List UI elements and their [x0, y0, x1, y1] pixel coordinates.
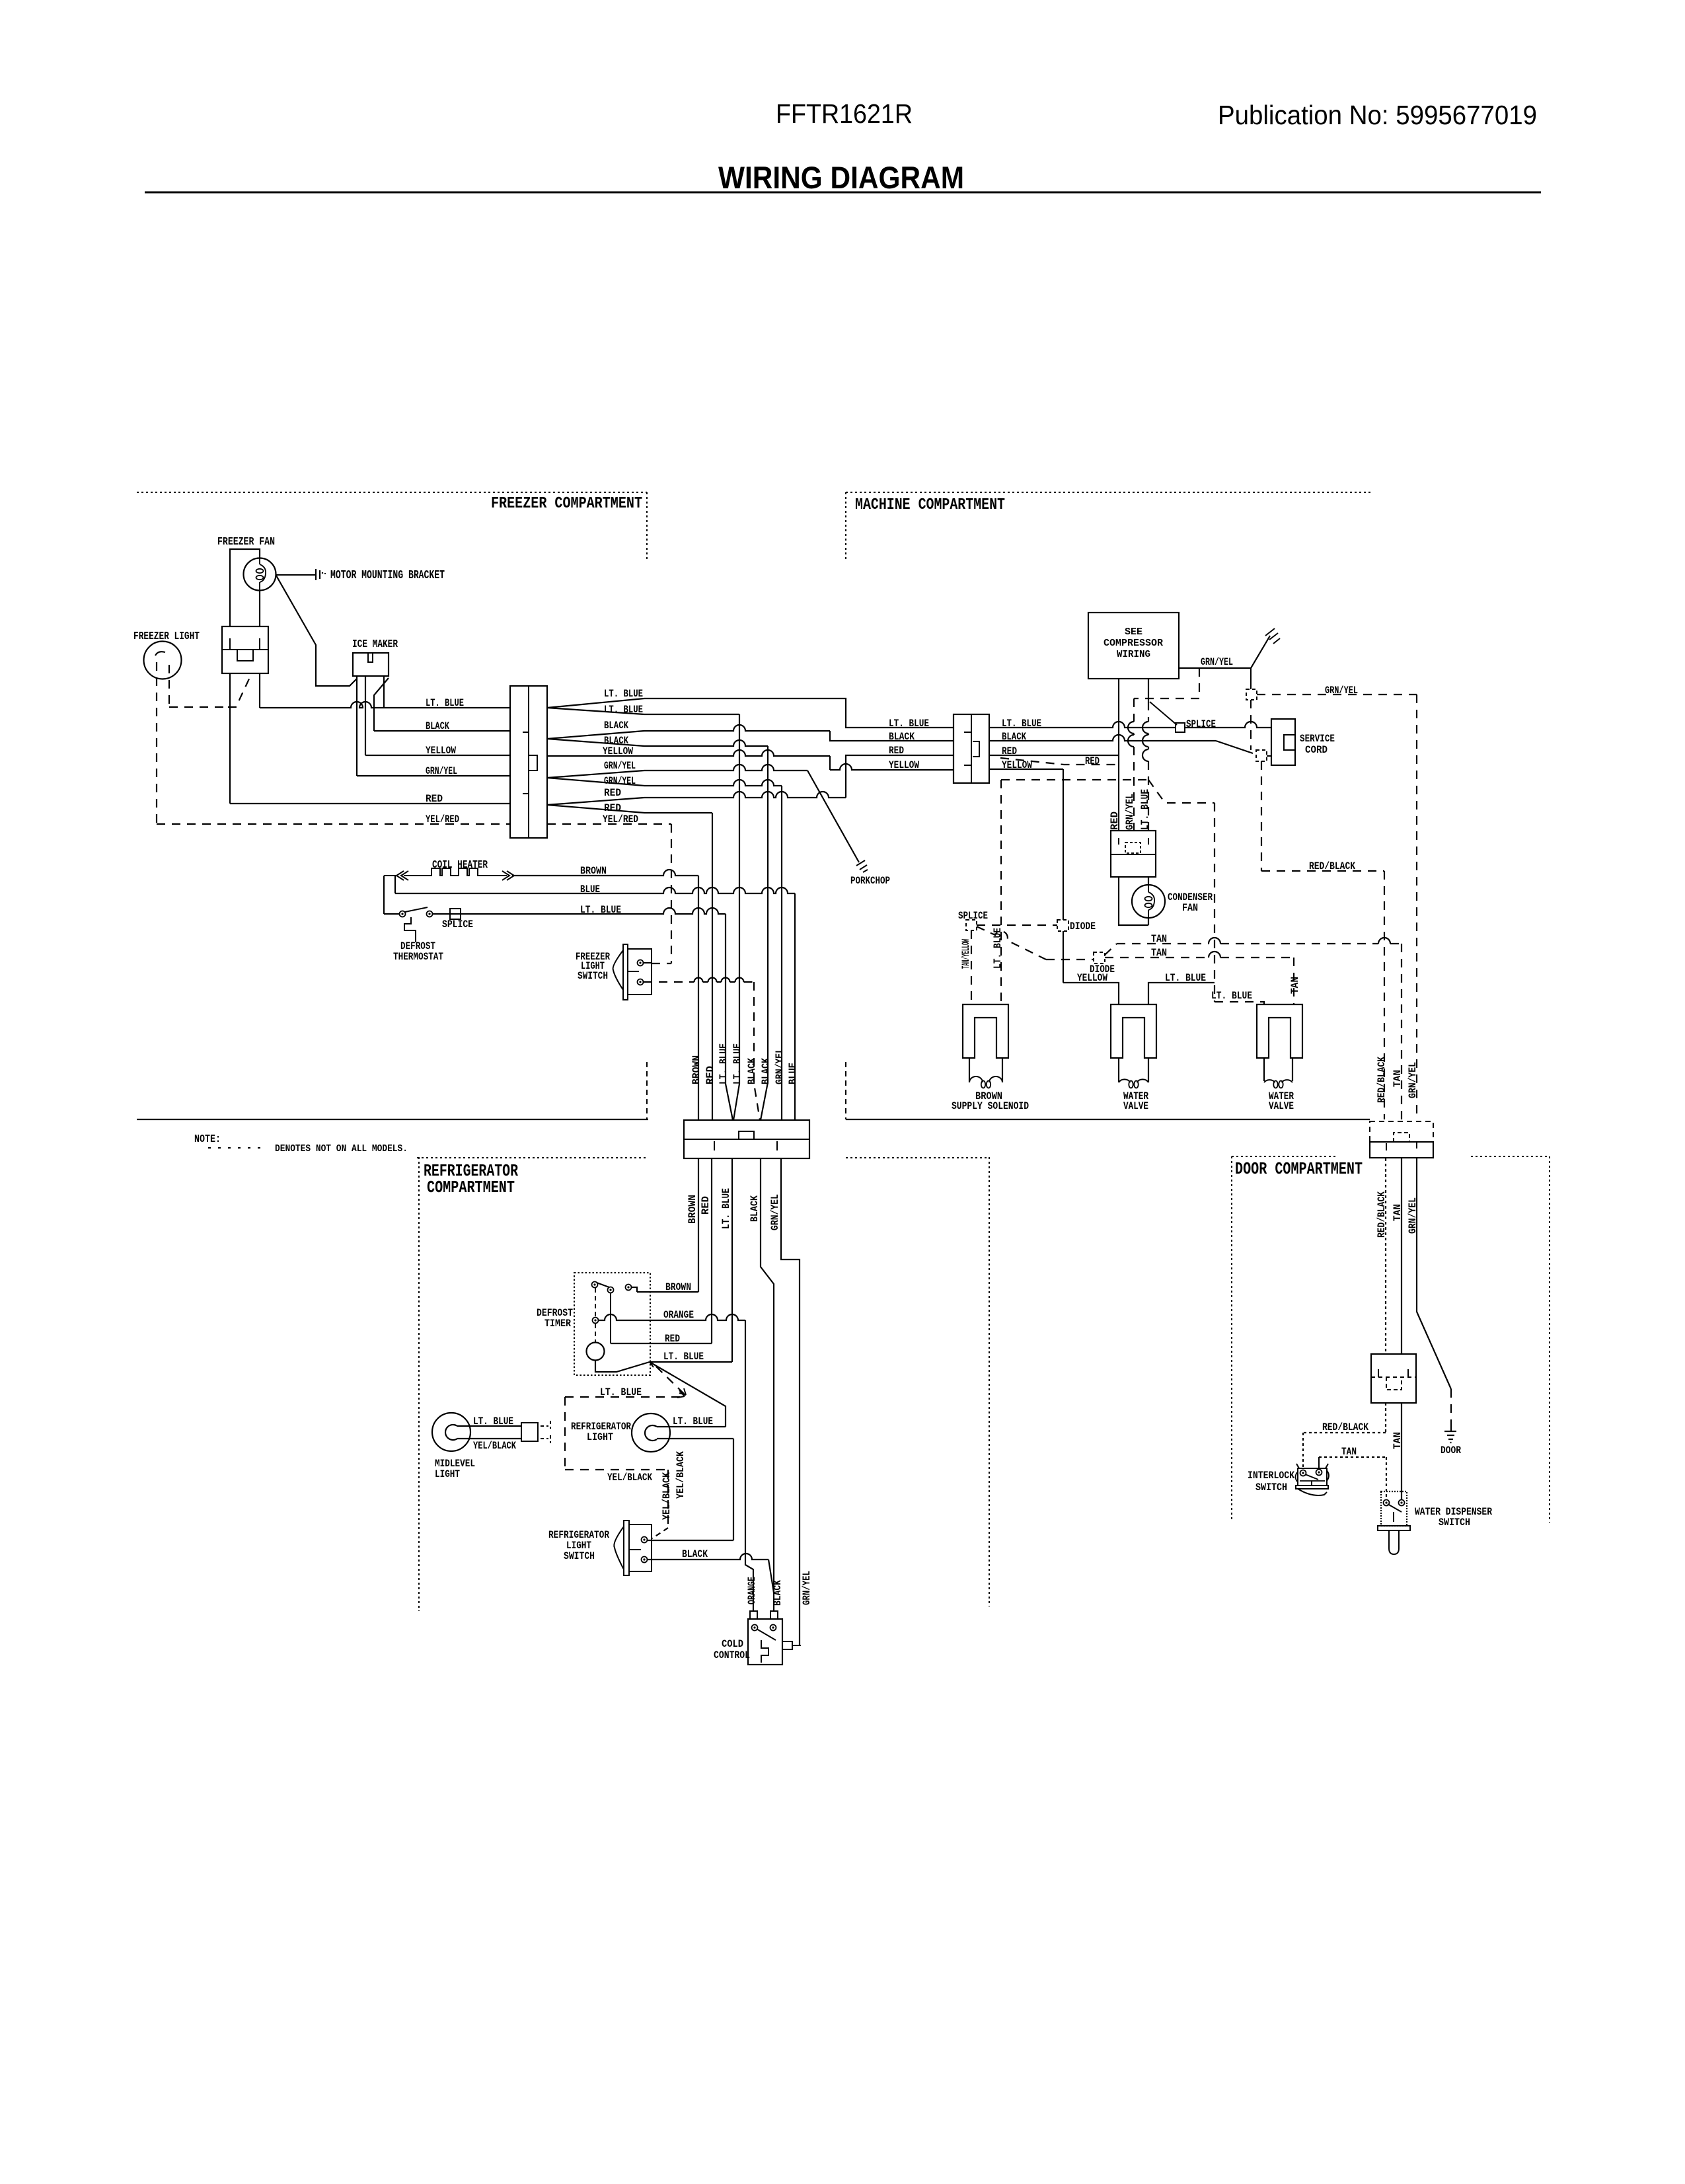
wire LT. BLUE valve1: [1148, 983, 1215, 1004]
wire LT. BLUE bundle b: [733, 714, 739, 1120]
defrost timer internal link: [595, 1288, 596, 1317]
porkchop ground symbol: [856, 860, 868, 872]
dashed box bottom side: [565, 1469, 668, 1470]
machine connector divider: [971, 714, 972, 783]
svg-text:RED: RED: [889, 745, 904, 757]
wire YELLOW freezer: [365, 755, 510, 756]
svg-text:ICE MAKER: ICE MAKER: [352, 638, 398, 651]
svg-text:GRN/YEL: GRN/YEL: [769, 1194, 781, 1230]
midlevel connector mate dashes: [541, 1421, 550, 1443]
machine connector ticks: [964, 732, 971, 765]
wire GRN/YEL splice vertical: [1250, 668, 1252, 689]
refrigerator compartment top border left: [417, 1157, 647, 1158]
wire LT. BLUE machine to splice: [989, 722, 1176, 728]
svg-text:TAN: TAN: [1392, 1070, 1404, 1087]
svg-text:BROWN: BROWN: [665, 1281, 691, 1293]
wire RED fan relay left leg: [229, 673, 231, 804]
wire LT. BLUE compressor dashed: [1148, 702, 1149, 831]
refrigerator light switch plate: [624, 1521, 629, 1575]
water dispenser switch plunger: [1389, 1530, 1399, 1554]
wire heater left end link: [383, 876, 385, 914]
cold control right screw: [770, 1625, 776, 1631]
wire BLACK dashed from switch lower: [644, 981, 754, 983]
wire freezer light right lead: [168, 665, 170, 707]
wire BLACK machine: [989, 735, 1216, 741]
defrost timer arm: [597, 1283, 609, 1287]
freezer light switch pointer: [613, 950, 623, 990]
svg-text:SERVICE: SERVICE: [1300, 733, 1335, 745]
svg-text:GRN/YEL: GRN/YEL: [1407, 1062, 1419, 1098]
wire TAN2 dashed left: [1046, 959, 1094, 960]
interlock switch right terminal: [1316, 1470, 1322, 1476]
svg-text:BLACK: BLACK: [749, 1195, 761, 1222]
svg-text:GRN/YEL: GRN/YEL: [1407, 1197, 1419, 1234]
defrost timer terminal 1: [592, 1282, 598, 1288]
svg-text:RED: RED: [426, 793, 443, 805]
freezer fan connector pin ticks: [230, 638, 260, 650]
cold control left screw: [752, 1625, 758, 1631]
refrigerator light circle: [632, 1413, 670, 1452]
refrigerator light switch pointer: [614, 1526, 624, 1569]
wire RED refrigerator: [711, 1158, 712, 1343]
interlock switch body: [1296, 1464, 1328, 1486]
svg-text:BLUE: BLUE: [787, 1063, 799, 1084]
wire LT. BLUE timer: [650, 1361, 732, 1363]
ice maker body: [353, 653, 389, 676]
wire TAN2 dashed right: [1105, 957, 1294, 958]
wire splice to diode1 dashed: [977, 924, 1057, 926]
interlock switch inner bar: [1300, 1481, 1325, 1486]
defrost thermostat arm: [405, 907, 428, 912]
wire BLACK pair fanout: [547, 731, 644, 746]
wire LT. BLUE dashed to valves: [1214, 803, 1215, 1002]
wire BLACK switch to cold control: [648, 1559, 650, 1560]
wire LT. BLUE freezer bus: [260, 702, 510, 708]
wire timer motor to lt blue: [595, 1360, 650, 1372]
wire splice pointer diagonal: [1150, 702, 1177, 725]
machine bottom border right part: [846, 1119, 1370, 1120]
wire LT. BLUE-1 to machine bus: [644, 698, 954, 728]
refrigerator light switch upper terminal: [642, 1537, 648, 1543]
interlock switch flange: [1296, 1486, 1328, 1489]
midlevel connector body: [521, 1423, 538, 1441]
wire lt blue diagonal to light: [650, 1362, 726, 1427]
door plug connector body: [1371, 1354, 1416, 1403]
wire BROWN timer: [631, 1287, 637, 1292]
wire terminal2 drop: [610, 1293, 611, 1343]
svg-text:GRN/YEL: GRN/YEL: [1124, 794, 1136, 830]
door compartment top border right: [1471, 1156, 1550, 1157]
wire BLACK into lower square: [1267, 755, 1271, 757]
wire GRN/YEL refrigerator: [781, 1158, 800, 1645]
svg-text:BLACK: BLACK: [889, 731, 915, 743]
service cord lower square dashed: [1256, 750, 1267, 761]
svg-text:COLD: COLD: [722, 1638, 743, 1650]
cold control orange terminal: [750, 1611, 757, 1619]
svg-text:BLACK: BLACK: [772, 1580, 784, 1606]
svg-text:LT. BLUE: LT. BLUE: [604, 704, 643, 716]
svg-text:DIODE: DIODE: [1090, 963, 1115, 975]
door plug connector notch: [1386, 1377, 1402, 1390]
machine connector notch: [973, 741, 979, 757]
refrigerator harness connector ticks: [714, 1141, 777, 1150]
condenser fan circle: [1132, 885, 1165, 918]
svg-text:FFTR1621R: FFTR1621R: [776, 98, 913, 129]
svg-text:PORKCHOP: PORKCHOP: [850, 875, 890, 887]
svg-text:RED/BLACK: RED/BLACK: [1309, 860, 1355, 872]
wire RED bundle: [712, 813, 713, 1120]
svg-text:SWITCH: SWITCH: [564, 1550, 595, 1562]
svg-text:SPLICE: SPLICE: [958, 910, 988, 922]
wire ice maker pin LT.BLUE leg: [383, 676, 385, 708]
wire YEL/RED freezer dashed: [157, 823, 510, 825]
svg-text:GRN/YEL: GRN/YEL: [604, 760, 636, 772]
wire GRN/YEL freezer: [357, 775, 510, 776]
svg-text:WIRING DIAGRAM: WIRING DIAGRAM: [718, 160, 964, 195]
dashed box left side: [564, 1397, 566, 1470]
svg-text:VALVE: VALVE: [1269, 1100, 1294, 1112]
svg-text:VALVE: VALVE: [1123, 1100, 1148, 1112]
interlock switch flap: [1298, 1489, 1327, 1495]
wire condenser fan left leg: [1119, 877, 1148, 925]
wire LT. BLUE dashed pointer horiz: [565, 1396, 681, 1398]
refrigerator compartment top border right: [846, 1157, 989, 1158]
svg-text:RED: RED: [704, 1066, 716, 1084]
wire YEL/RED dashed to switch: [547, 823, 671, 825]
defrost timer motor circle: [587, 1343, 605, 1361]
svg-text:TAN: TAN: [1151, 947, 1167, 959]
wire YEL/RED vertical: [671, 824, 672, 963]
splice square solenoid: [966, 920, 977, 930]
svg-text:LT. BLUE: LT. BLUE: [1165, 972, 1206, 984]
svg-text:LT. BLUE: LT. BLUE: [1211, 990, 1252, 1002]
svg-text:RED/BLACK: RED/BLACK: [1376, 1057, 1388, 1103]
svg-text:GRN/YEL: GRN/YEL: [426, 765, 457, 777]
freezer light switch body: [628, 949, 652, 995]
svg-text:FAN: FAN: [1182, 902, 1198, 914]
cold control black terminal: [770, 1611, 778, 1619]
svg-text:YEL/BLACK: YEL/BLACK: [661, 1472, 673, 1520]
wire RED/BLACK door vertical: [1385, 1158, 1386, 1354]
freezer compartment right border stub: [646, 492, 648, 560]
freezer fan frame: [230, 549, 260, 626]
wire BLACK-1 to machine bus: [644, 725, 830, 731]
wire YEL/BLACK dashed drop: [667, 1470, 669, 1528]
svg-text:TIMER: TIMER: [544, 1318, 571, 1330]
svg-text:RED: RED: [700, 1196, 712, 1215]
svg-text:DOOR: DOOR: [1441, 1445, 1461, 1456]
svg-text:BLACK: BLACK: [1002, 731, 1026, 743]
svg-text:RED: RED: [604, 787, 621, 799]
svg-text:LT. BLUE: LT. BLUE: [889, 718, 929, 730]
svg-text:LT. BLUE: LT. BLUE: [1002, 718, 1041, 730]
wire BLACK freezer: [374, 730, 510, 732]
svg-text:CORD: CORD: [1305, 744, 1328, 756]
water dispenser switch left terminal: [1384, 1500, 1390, 1506]
refrigerator harness connector notch: [739, 1131, 754, 1139]
defrost timer terminal 4: [593, 1318, 599, 1324]
water valve 1 body: [1111, 1004, 1156, 1058]
svg-text:RED: RED: [1085, 755, 1100, 767]
svg-text:TAN: TAN: [1289, 977, 1301, 994]
freezer light filament: [155, 652, 165, 656]
wire LT. BLUE midlevel: [457, 1425, 521, 1427]
wire RED machine: [989, 755, 1118, 756]
water dispenser switch right terminal: [1399, 1500, 1405, 1506]
freezer light switch plate: [623, 944, 628, 1000]
wire GRN/YEL bundle: [781, 786, 782, 1120]
midlevel light socket: [445, 1425, 457, 1440]
wire BLACK refrigerator: [761, 1158, 774, 1611]
svg-text:TAN: TAN: [1392, 1432, 1404, 1449]
svg-text:BLACK: BLACK: [426, 720, 449, 732]
svg-text:SPLICE: SPLICE: [442, 919, 473, 930]
freezer fan frame right lower: [259, 590, 260, 626]
wire LT. BLUE fan relay right leg: [259, 673, 260, 708]
svg-text:LT. BLUE: LT. BLUE: [604, 688, 643, 700]
wire BLACK bundle dashed: [754, 982, 760, 1120]
machine compartment left border stub: [845, 492, 846, 560]
service cord body: [1271, 719, 1295, 765]
wire LT. BLUE splice to service cord: [1185, 722, 1271, 728]
wire LT. BLUE valve2 dashed: [1215, 1002, 1264, 1005]
freezer light bulb circle: [144, 642, 182, 679]
water valve 2 legs: [1264, 1058, 1292, 1081]
svg-text:DOOR COMPARTMENT: DOOR COMPARTMENT: [1235, 1159, 1363, 1179]
wire TAN1 dashed: [1105, 944, 1117, 955]
svg-text:RED/BLACK: RED/BLACK: [1322, 1421, 1368, 1433]
water valve 2 coil: [1264, 1080, 1292, 1082]
svg-text:WIRING: WIRING: [1117, 649, 1150, 660]
svg-text:CONTROL: CONTROL: [714, 1649, 750, 1661]
interlock switch arm: [1305, 1474, 1318, 1480]
wire RED dashed alt: [1000, 758, 1119, 765]
wire YELLOW to machine bus: [547, 750, 830, 756]
svg-text:RED: RED: [604, 802, 621, 814]
wire TAN interlock to dispenser: [1318, 1457, 1320, 1470]
svg-text:BLACK: BLACK: [760, 1058, 772, 1084]
coil heater element and arrows: [384, 868, 514, 880]
svg-text:GRN/YEL: GRN/YEL: [1201, 656, 1233, 668]
wire LT. BLUE pair fanout: [547, 698, 644, 714]
freezer fan motor circle: [244, 558, 276, 591]
freezer compartment right border lower stub: [646, 1062, 648, 1119]
defrost timer box: [574, 1273, 650, 1375]
wire BLUE heater: [395, 887, 795, 893]
door compartment right border: [1549, 1156, 1550, 1523]
door plug connector ticks: [1378, 1369, 1408, 1377]
splice square machine: [1176, 723, 1185, 732]
svg-text:GRN/YEL: GRN/YEL: [801, 1571, 813, 1605]
defrost timer terminal 3: [626, 1285, 632, 1291]
svg-text:GRN/YEL: GRN/YEL: [774, 1048, 786, 1084]
wire LT. BLUE refrigerator light: [657, 1426, 726, 1427]
svg-text:RED: RED: [1109, 811, 1121, 830]
cold control capillary: [761, 1640, 768, 1663]
wire GRN/YEL-2 drop: [644, 780, 782, 786]
compressor wiring box: [1088, 613, 1179, 679]
svg-text:YELLOW: YELLOW: [889, 759, 919, 771]
svg-text:GRN/YEL: GRN/YEL: [604, 775, 636, 787]
porkchop diagonal wire: [807, 771, 859, 862]
water valve 1 legs: [1119, 1058, 1148, 1082]
wire LT. BLUE bundle a: [726, 914, 733, 1120]
svg-text:SPLICE: SPLICE: [1186, 718, 1216, 730]
svg-text:RED/BLACK: RED/BLACK: [1376, 1191, 1388, 1238]
wire ice maker pin GRN/YEL leg: [356, 676, 357, 776]
wire GRN/YEL compressor: [1179, 667, 1251, 669]
compressor relay box: [1111, 831, 1156, 877]
svg-text:LIGHT: LIGHT: [587, 1431, 613, 1443]
svg-text:LT. BLUE: LT. BLUE: [426, 697, 464, 709]
wire TAN/YELLOW dashed: [971, 930, 972, 1004]
svg-text:SWITCH: SWITCH: [1255, 1482, 1287, 1493]
defrost thermostat right terminal: [427, 911, 433, 917]
svg-text:LIGHT: LIGHT: [435, 1468, 460, 1480]
wire RED compressor: [1118, 679, 1119, 831]
svg-text:TAN/YELLOW: TAN/YELLOW: [960, 939, 972, 969]
svg-text:LT. BLUE: LT. BLUE: [1139, 789, 1151, 830]
wire BROWN bundle: [698, 876, 699, 1120]
wire BROWN refrigerator: [698, 1158, 699, 1292]
wire ORANGE timer: [598, 1314, 745, 1320]
door compartment top border left: [1232, 1156, 1336, 1157]
refrigerator harness connector body: [684, 1120, 809, 1158]
wire ice maker pin YELLOW leg: [365, 676, 366, 755]
interlock switch left terminal: [1300, 1470, 1306, 1476]
wire GRN/YEL dashed to door: [1257, 694, 1417, 695]
diode 1 square: [1057, 920, 1068, 931]
splice square on LT. BLUE: [450, 909, 461, 919]
svg-text:DIODE: DIODE: [1070, 921, 1096, 932]
wire LT. BLUE-2 drop: [644, 714, 739, 715]
wire GRN/YEL to cold control: [792, 1645, 801, 1646]
refrigerator light switch lower terminal: [642, 1557, 648, 1563]
freezer connector notch: [529, 755, 537, 771]
freezer/machine bottom border left part: [137, 1119, 648, 1120]
svg-text:NOTE:: NOTE:: [194, 1133, 221, 1146]
water dispenser switch arm: [1388, 1504, 1402, 1522]
svg-text:YEL/RED: YEL/RED: [426, 813, 459, 825]
refrigerator harness connector divider: [684, 1139, 809, 1140]
wire RED timer: [611, 1343, 712, 1344]
service cord inner plug: [1284, 735, 1295, 750]
wire condenser fan right legs: [1148, 877, 1149, 925]
wire YEL/RED to switch upper: [644, 962, 652, 963]
svg-text:GRN/YEL: GRN/YEL: [1325, 685, 1358, 697]
machine compartment top border: [846, 492, 1371, 493]
ground symbol compressor: [1265, 628, 1280, 644]
freezer fan motor coil: [260, 558, 266, 590]
door harness connector ticks: [1386, 1142, 1417, 1150]
wire BROWN heater: [512, 870, 698, 876]
svg-text:BLACK: BLACK: [604, 720, 628, 732]
wire freezer light left lead YEL/RED: [156, 662, 157, 824]
wire BLACK-2 drop: [644, 740, 768, 746]
wire GRN/YEL door: [1416, 1158, 1417, 1312]
wire heater brown-blue link: [394, 876, 396, 893]
water dispenser switch flange: [1378, 1526, 1410, 1530]
svg-text:MOTOR MOUNTING BRACKET: MOTOR MOUNTING BRACKET: [330, 569, 445, 582]
svg-text:COMPARTMENT: COMPARTMENT: [427, 1178, 515, 1197]
freezer light switch lower terminal: [638, 979, 644, 985]
wire RED freezer: [230, 803, 510, 804]
svg-text:LT. BLUE: LT. BLUE: [663, 1351, 704, 1363]
ice maker key notch: [368, 653, 373, 662]
svg-text:YEL/RED: YEL/RED: [603, 813, 638, 825]
title underline: [145, 192, 1541, 194]
ground symbol DOOR: [1444, 1426, 1456, 1443]
defrost thermostat left terminal: [400, 911, 406, 917]
refrigerator compartment left border: [418, 1157, 420, 1611]
svg-text:RED: RED: [665, 1333, 680, 1345]
svg-text:INTERLOCK: INTERLOCK: [1248, 1470, 1294, 1482]
motor mounting bracket symbol: [316, 569, 325, 580]
diode 2 square: [1094, 952, 1105, 963]
water dispenser switch body: [1381, 1491, 1407, 1526]
wire LT. BLUE heater left seg: [384, 913, 400, 915]
arrowhead at timer apex: [650, 1362, 657, 1367]
svg-text:Publication No: 5995677019: Publication No: 5995677019: [1218, 100, 1537, 130]
svg-text:YEL/BLACK: YEL/BLACK: [607, 1472, 652, 1484]
interlock switch ears: [1296, 1470, 1329, 1482]
svg-text:LT. BLUE: LT. BLUE: [720, 1188, 732, 1229]
freezer fan connector divider: [222, 649, 268, 650]
freezer light switch upper terminal: [638, 960, 644, 966]
wire YEL/BLACK refrigerator light: [657, 1438, 733, 1439]
svg-text:SEE: SEE: [1125, 626, 1142, 638]
door harness connector body: [1370, 1142, 1433, 1158]
wire RED-1 to machine bus: [644, 792, 846, 798]
svg-text:BROWN: BROWN: [687, 1195, 698, 1224]
freezer fan connector notch: [237, 650, 253, 661]
svg-text:RED: RED: [1002, 745, 1017, 757]
svg-text:TAN: TAN: [1341, 1446, 1357, 1458]
freezer fan connector body: [222, 626, 268, 673]
svg-text:LT. BLUE: LT. BLUE: [600, 1386, 642, 1398]
wire YELLOW drop: [1063, 769, 1064, 920]
wire GRN/YEL dashed to relay: [1134, 668, 1199, 698]
machine compartment left border lower stub: [845, 1062, 846, 1119]
svg-text:THERMOSTAT: THERMOSTAT: [393, 951, 443, 963]
machine connector body: [954, 714, 989, 783]
wire LT. BLUE heater right seg: [433, 908, 726, 914]
wire RED/BLACK to interlock: [1385, 1403, 1386, 1433]
cold control arm: [757, 1629, 776, 1640]
svg-text:YEL/BLACK: YEL/BLACK: [675, 1451, 687, 1499]
svg-text:BLUE: BLUE: [580, 884, 600, 895]
wire RED-2 drop: [644, 812, 712, 813]
svg-text:BLACK: BLACK: [746, 1058, 758, 1084]
brown supply solenoid legs: [969, 1058, 1002, 1082]
wire fan to mounting bracket: [276, 574, 317, 576]
cold control right stub: [782, 1641, 792, 1649]
wire LT. BLUE dashed pointer diag: [656, 1367, 685, 1394]
svg-text:DENOTES NOT ON ALL MODELS.: DENOTES NOT ON ALL MODELS.: [275, 1143, 408, 1154]
svg-text:FREEZER COMPARTMENT: FREEZER COMPARTMENT: [491, 495, 642, 513]
water valve 1 coil: [1119, 1079, 1148, 1082]
wire splice to tan diagonal dashed: [977, 926, 1046, 960]
svg-text:BROWN: BROWN: [691, 1055, 702, 1084]
freezer compartment top border: [137, 492, 647, 493]
wire ice maker pin BLACK leg: [374, 678, 389, 731]
midlevel light circle: [432, 1413, 470, 1451]
wire YEL/BLACK midlevel: [457, 1438, 521, 1439]
wire TAN door vertical: [1401, 1158, 1402, 1354]
svg-text:SWITCH: SWITCH: [578, 970, 608, 982]
wire LT. BLUE compressor solid: [1148, 679, 1149, 702]
wire LT. BLUE dashed loop: [1000, 780, 1002, 1004]
